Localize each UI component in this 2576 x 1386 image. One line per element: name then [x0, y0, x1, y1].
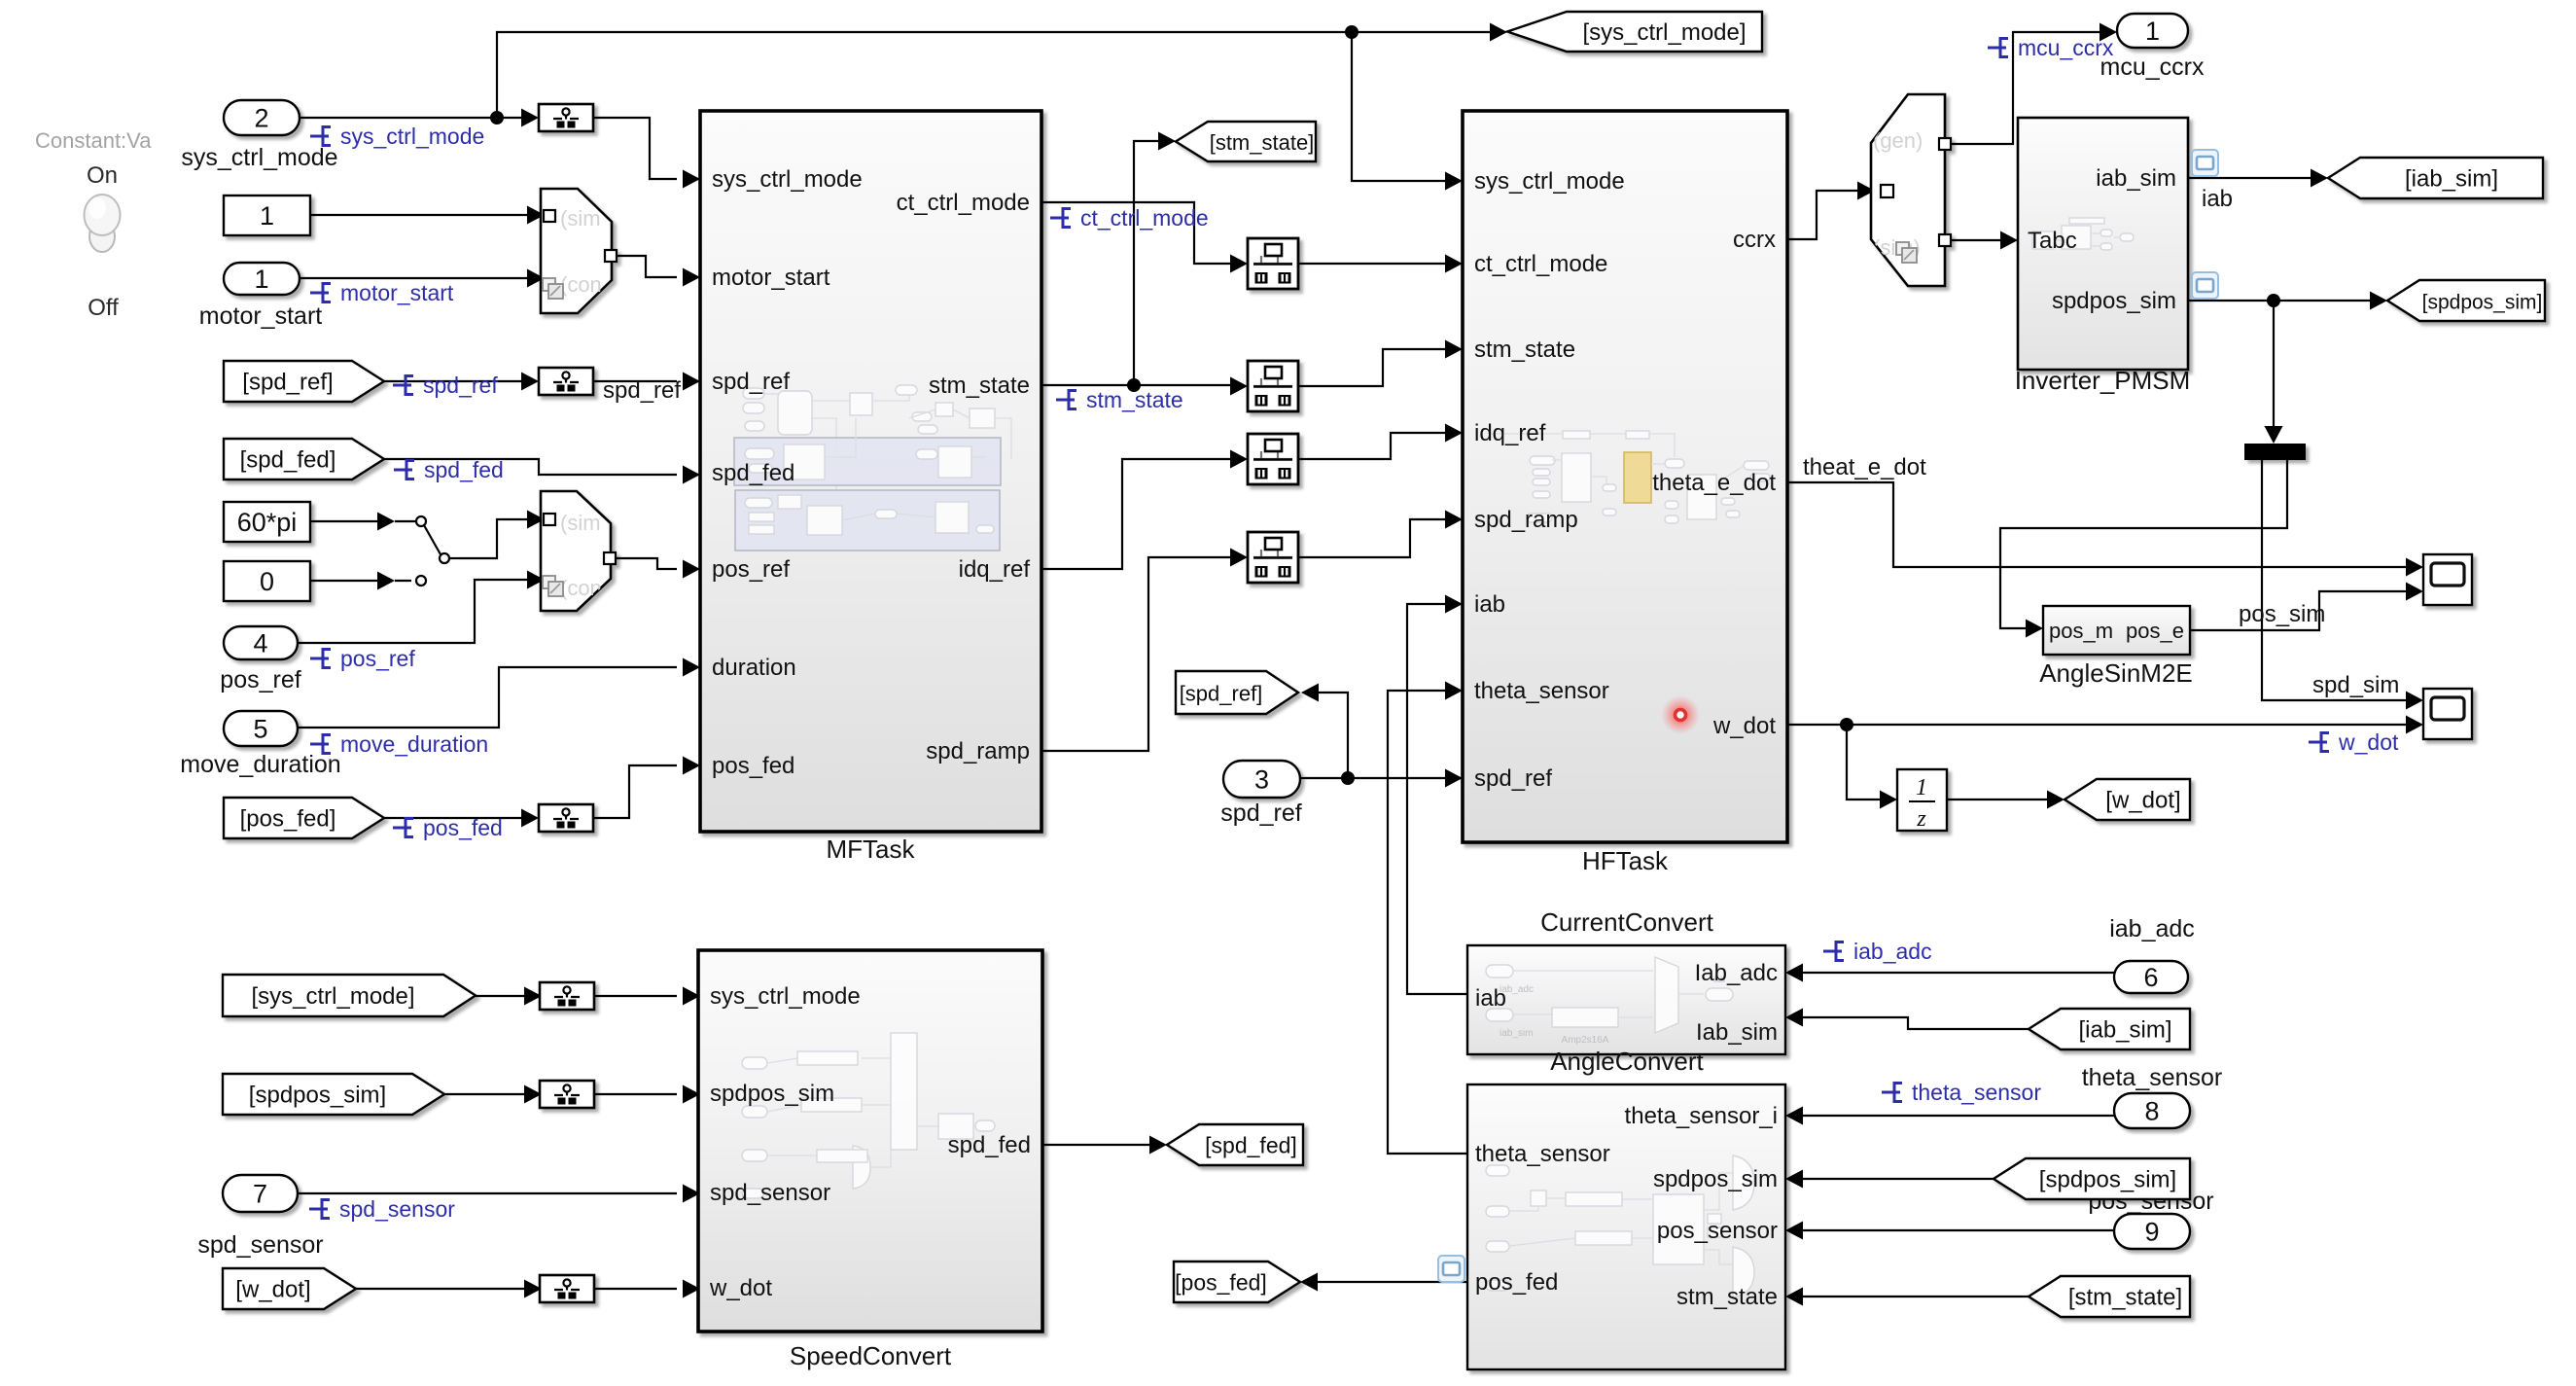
svg-text:theta_e_dot: theta_e_dot	[1652, 470, 1776, 496]
svg-text:[spdpos_sim]: [spdpos_sim]	[2039, 1167, 2176, 1193]
svg-text:sys_ctrl_mode: sys_ctrl_mode	[340, 124, 484, 149]
svg-text:motor_start: motor_start	[199, 302, 322, 330]
wire rate2 out to MFTask spd_ref	[593, 380, 677, 382]
outport 1 mcu_ccrx	[2117, 14, 2188, 48]
svg-text:0: 0	[260, 567, 274, 596]
subsystem HFTask	[1463, 111, 1787, 842]
variant source VS1	[541, 189, 617, 313]
svg-text:idq_ref: idq_ref	[959, 556, 1031, 583]
svg-text:(sim: (sim	[560, 511, 601, 535]
from tag sys_ctrl_mode bottom	[223, 975, 476, 1016]
svg-text:[spd_fed]: [spd_fed]	[1205, 1133, 1297, 1158]
svg-text:pos_sensor: pos_sensor	[1657, 1218, 1778, 1244]
inport 3 spd_ref	[1223, 761, 1300, 798]
svg-text:stm_state: stm_state	[1676, 1284, 1778, 1310]
svg-text:idq_ref: idq_ref	[1474, 420, 1546, 446]
svg-text:spd_fed: spd_fed	[948, 1132, 1031, 1158]
svg-text:ccrx: ccrx	[1733, 227, 1776, 253]
svg-text:Off: Off	[88, 295, 119, 321]
svg-text:spd_sensor: spd_sensor	[710, 1180, 830, 1206]
rate transition block T1-5	[540, 1081, 594, 1108]
wire T2-2 to HFTask stm_state	[1298, 349, 1453, 386]
rate transition block T1-6	[540, 1275, 594, 1302]
rate transition block T1-3	[539, 804, 593, 832]
wire port3 spd_ref to HFTask with branch to goto tag	[1300, 777, 1453, 779]
svg-text:w_dot: w_dot	[1712, 713, 1776, 739]
goto tag sys_ctrl_mode top	[1507, 12, 1762, 52]
svg-text:Constant:Va: Constant:Va	[35, 128, 152, 153]
svg-text:[stm_state]: [stm_state]	[1210, 130, 1315, 155]
wire rate3 out to MFTask pos_fed	[593, 765, 677, 818]
wire tag w_dot to rate block T1-6 and SpeedConvert	[356, 1288, 532, 1290]
subsystem MFTask	[700, 111, 1041, 832]
demux	[2244, 444, 2306, 460]
inport 1 motor_start	[224, 263, 300, 295]
rate transition block T2-1	[1248, 238, 1298, 289]
goto tag stm_state	[1176, 122, 1316, 161]
log badge spd_fed	[394, 459, 414, 480]
wire port7 spd_sensor to SpeedConvert	[298, 1192, 677, 1194]
svg-text:spd_ref: spd_ref	[423, 373, 498, 398]
goto tag spd_fed middle	[1167, 1124, 1303, 1165]
svg-text:sys_ctrl_mode: sys_ctrl_mode	[1474, 168, 1625, 195]
rate transition block T2-3	[1248, 434, 1298, 484]
svg-text:3: 3	[1254, 765, 1269, 795]
wire port9 pos_sensor to AngleConvert	[1795, 1229, 2114, 1231]
svg-text:[spd_ref]: [spd_ref]	[1180, 682, 1263, 706]
svg-text:spd_ref: spd_ref	[1220, 800, 1301, 827]
svg-text:AngleConvert: AngleConvert	[1550, 1047, 1704, 1076]
wire port move_duration to MFTask duration	[298, 667, 677, 728]
constant block 60*pi	[224, 502, 310, 542]
wire T2-3 to HFTask idq_ref	[1298, 433, 1453, 459]
wire demux left leg to scope2 spd_sim input	[2262, 459, 2414, 700]
log badge spd_ref	[393, 374, 413, 396]
scope spd_sim	[2423, 689, 2472, 739]
svg-text:theta_sensor_i: theta_sensor_i	[1625, 1103, 1778, 1129]
svg-text:sys_ctrl_mode: sys_ctrl_mode	[712, 166, 863, 193]
log badge move_duration	[310, 733, 331, 755]
AngleConvert ghost preview	[1486, 1155, 1754, 1297]
svg-text:6: 6	[2143, 963, 2158, 992]
svg-text:[iab_sim]: [iab_sim]	[2078, 1017, 2171, 1044]
inport 5 move_duration	[224, 711, 298, 746]
svg-text:spdpos_sim: spdpos_sim	[1653, 1166, 1778, 1192]
svg-text:pos_ref: pos_ref	[220, 666, 300, 693]
wire tag spdpos_sim to AngleConvert	[1795, 1178, 1994, 1180]
wire MFTask spd_ramp to rate block T2-4	[1041, 557, 1238, 751]
svg-text:theta_sensor: theta_sensor	[1912, 1080, 2041, 1105]
SpeedConvert ghost preview	[742, 1033, 995, 1198]
svg-text:4: 4	[253, 629, 267, 658]
log badge sys_ctrl_mode	[310, 125, 331, 147]
svg-text:[pos_fed]: [pos_fed]	[240, 806, 336, 833]
wire VS1 out to MFTask motor_start	[618, 256, 677, 277]
svg-text:mcu_ccrx: mcu_ccrx	[2018, 35, 2114, 60]
svg-text:spd_sim: spd_sim	[2312, 672, 2399, 698]
wire port8 theta_sensor to AngleConvert theta_sensor_i	[1795, 1115, 2114, 1117]
inport 4 pos_ref	[224, 626, 298, 659]
log badge ct_ctrl_mode	[1050, 207, 1071, 229]
svg-text:[sys_ctrl_mode]: [sys_ctrl_mode]	[251, 983, 414, 1010]
svg-text:SpeedConvert: SpeedConvert	[790, 1341, 952, 1370]
rate transition block T1-2	[539, 368, 593, 395]
svg-text:pos_fed: pos_fed	[1475, 1269, 1558, 1296]
svg-text:move_duration: move_duration	[340, 731, 488, 757]
goto tag pos_fed middle	[1174, 1262, 1300, 1302]
viewer badge on iab_sim output	[2192, 150, 2218, 176]
constant block 1	[224, 195, 310, 235]
toggle switch icon	[85, 195, 121, 252]
svg-text:theta_sensor: theta_sensor	[2082, 1064, 2223, 1091]
log badge iab_adc	[1823, 941, 1844, 962]
inport 9	[2114, 1214, 2190, 1249]
wire HFTask ccrx to variant sink	[1787, 191, 1861, 239]
svg-text:MFTask: MFTask	[827, 835, 916, 864]
svg-text:theat_e_dot: theat_e_dot	[1803, 454, 1926, 480]
inport 7 spd_sensor	[223, 1175, 298, 1212]
yellow chart block inside HFTask ghost	[1624, 452, 1651, 503]
wire VS2 out to MFTask pos_ref	[617, 558, 677, 569]
from tag spd_fed	[224, 439, 384, 480]
svg-text:HFTask: HFTask	[1582, 846, 1669, 875]
svg-text:spd_fed: spd_fed	[424, 457, 504, 482]
svg-text:spd_ref: spd_ref	[1474, 765, 1552, 792]
log badge w_dot right	[2309, 731, 2329, 753]
svg-text:mcu_ccrx: mcu_ccrx	[2100, 53, 2205, 81]
wire Inverter iab_sim to tag iab_sim	[2188, 177, 2318, 179]
svg-text:w_dot: w_dot	[709, 1275, 772, 1301]
wire SpeedConvert spd_fed to tag spd_fed	[1042, 1144, 1157, 1146]
wire constant 60*pi to manual switch	[310, 520, 381, 522]
wire from tag spd_ref to rate block 2	[384, 380, 529, 382]
from tag pos_fed	[224, 798, 384, 838]
svg-text:pos_ref: pos_ref	[340, 646, 415, 671]
svg-text:spdpos_sim: spdpos_sim	[710, 1081, 834, 1107]
log badge pos_ref	[310, 648, 331, 669]
block AngleSinM2E	[2043, 606, 2190, 655]
svg-text:(sim: (sim	[560, 206, 601, 231]
goto tag iab_sim bottom	[2029, 1009, 2190, 1049]
svg-text:1: 1	[254, 265, 268, 294]
svg-text:1: 1	[260, 201, 274, 231]
goto tag spdpos_sim bottom right	[1994, 1158, 2190, 1199]
svg-text:2: 2	[254, 104, 268, 133]
svg-text:spd_ref: spd_ref	[603, 377, 681, 404]
svg-text:iab_sim: iab_sim	[1500, 1028, 1533, 1039]
rate transition block T2-2	[1248, 361, 1298, 411]
wire top sys_ctrl_mode bus	[497, 32, 1498, 118]
wire from tag spd_fed to MFTask spd_fed	[384, 459, 677, 475]
svg-text:duration: duration	[712, 655, 796, 681]
svg-text:CurrentConvert: CurrentConvert	[1540, 907, 1714, 937]
MFTask ghost preview	[734, 385, 1011, 551]
svg-text:8: 8	[2144, 1097, 2159, 1126]
wire AngleConvert pos_fed to tag pos_fed	[1314, 1281, 1467, 1283]
goto tag spdpos_sim right	[2387, 280, 2545, 321]
svg-text:sys_ctrl_mode: sys_ctrl_mode	[181, 144, 337, 171]
wire MFTask idq_ref to rate block T2-3	[1041, 459, 1238, 569]
wire Inverter spdpos_sim to tag with branch down to demux	[2188, 300, 2378, 302]
svg-text:[spdpos_sim]: [spdpos_sim]	[249, 1083, 386, 1109]
wire MFTask stm_state out with branch to tag	[1041, 384, 1238, 386]
svg-text:(gen): (gen)	[1873, 128, 1923, 153]
goto tag spd_ref middle	[1176, 671, 1298, 714]
svg-text:sys_ctrl_mode: sys_ctrl_mode	[710, 983, 861, 1010]
svg-text:9: 9	[2144, 1218, 2159, 1247]
svg-text:[spd_fed]: [spd_fed]	[240, 447, 336, 474]
svg-text:Iab_adc: Iab_adc	[1695, 960, 1778, 986]
svg-text:stm_state: stm_state	[1474, 337, 1575, 363]
wire rate1 out to MFTask sys_ctrl_mode	[593, 118, 677, 179]
svg-text:60*pi: 60*pi	[237, 508, 298, 537]
wire T2-4 to HFTask spd_ramp	[1298, 519, 1453, 557]
unit delay 1/z	[1897, 769, 1947, 832]
svg-text:[spdpos_sim]: [spdpos_sim]	[2422, 292, 2543, 314]
svg-text:spd_sensor: spd_sensor	[197, 1231, 323, 1259]
wire variant sink gen out to port mcu_ccrx	[1951, 32, 2107, 144]
wire tag sys_ctrl_mode to rate block T1-4 and SpeedConvert	[476, 995, 532, 997]
from tag w_dot bottom	[223, 1268, 356, 1309]
svg-text:On: On	[87, 162, 118, 189]
wire HFTask theta_e_dot to scope1	[1787, 482, 2414, 567]
from tag spdpos_sim bottom	[223, 1074, 444, 1115]
subsystem CurrentConvert	[1467, 945, 1785, 1054]
svg-text:7: 7	[253, 1180, 267, 1209]
wire HFTask w_dot to scope2 with branch to unit delay	[1787, 724, 2414, 726]
wire tag iab_sim to CurrentConvert Iab_sim	[1795, 1017, 2029, 1029]
svg-text:Iab_sim: Iab_sim	[1696, 1019, 1778, 1046]
from tag spd_ref	[224, 361, 384, 402]
wire T2-1 to HFTask ct_ctrl_mode	[1298, 263, 1453, 265]
log badge pos_fed	[393, 817, 413, 838]
svg-text:Inverter_PMSM: Inverter_PMSM	[2015, 366, 2191, 395]
svg-text:(con: (con	[560, 272, 602, 297]
svg-text:pos_fed: pos_fed	[712, 753, 794, 779]
svg-text:stm_state: stm_state	[929, 373, 1030, 399]
subsystem Inverter_PMSM	[2018, 118, 2188, 370]
CurrentConvert ghost preview	[1486, 957, 1733, 1046]
wire manual switch to VS2 in1	[459, 519, 531, 558]
viewer badge on spdpos_sim output	[2192, 272, 2218, 299]
svg-text:iab: iab	[1475, 985, 1506, 1012]
svg-text:move_duration: move_duration	[180, 751, 340, 778]
wire AngleConvert theta_sensor up to HFTask theta_sensor	[1388, 691, 1467, 1154]
svg-text:motor_start: motor_start	[712, 265, 830, 291]
wire AngleSinM2E pos_e to scope1 pos_sim input	[2190, 591, 2414, 630]
rate transition block T1-4	[540, 982, 594, 1010]
svg-text:1: 1	[1916, 775, 1927, 800]
svg-text:iab: iab	[1474, 591, 1505, 618]
log badge spd_sensor	[309, 1198, 330, 1220]
svg-text:spd_fed: spd_fed	[712, 460, 794, 486]
svg-text:spdpos_sim: spdpos_sim	[2052, 288, 2176, 314]
log badge motor_start	[310, 282, 331, 303]
svg-text:theta_sensor: theta_sensor	[1474, 678, 1609, 704]
wire tag stm_state to AngleConvert	[1795, 1296, 2029, 1297]
goto tag iab_sim right	[2328, 158, 2543, 198]
wire CurrentConvert iab up to HFTask iab	[1407, 604, 1467, 994]
wire port pos_ref to VS2 in2	[298, 580, 531, 643]
viewer badge on pos_fed output	[1438, 1256, 1464, 1282]
svg-text:spd_ramp: spd_ramp	[1474, 507, 1578, 533]
subsystem SpeedConvert	[698, 950, 1042, 1332]
variant source VS2	[541, 491, 616, 611]
wire constant 0 to manual switch open contact	[310, 580, 381, 582]
svg-text:[spd_ref]: [spd_ref]	[242, 370, 333, 396]
svg-text:spd_ref: spd_ref	[712, 369, 790, 395]
svg-text:pos_fed: pos_fed	[423, 815, 503, 840]
svg-text:pos_sim: pos_sim	[2239, 601, 2325, 627]
rate transition block T1-1	[539, 104, 593, 131]
svg-text:pos_ref: pos_ref	[712, 556, 790, 583]
svg-text:ct_ctrl_mode: ct_ctrl_mode	[1080, 205, 1209, 231]
Inverter_PMSM ghost preview	[2032, 218, 2134, 250]
svg-text:[w_dot]: [w_dot]	[2105, 788, 2180, 814]
wire tag spdpos_sim to rate block T1-5 and SpeedConvert	[444, 1093, 532, 1095]
svg-text:spd_ramp: spd_ramp	[926, 738, 1030, 764]
wire from tag pos_fed to rate block 3	[384, 817, 529, 819]
svg-text:AngleSinM2E: AngleSinM2E	[2039, 658, 2193, 688]
red breakpoint indicator inside HFTask	[1661, 695, 1700, 734]
rate transition block T2-4	[1248, 532, 1298, 583]
log badge mcu_ccrx	[1988, 37, 2008, 58]
svg-text:stm_state: stm_state	[1086, 387, 1183, 412]
wire demux right leg to AngleSinM2E pos_m	[2000, 459, 2287, 628]
svg-text:5: 5	[253, 715, 267, 744]
log badge theta_sensor	[1882, 1082, 1902, 1103]
inport 2 sys_ctrl_mode	[224, 100, 300, 135]
manual switch	[416, 516, 426, 526]
wire constant 1 to variant source VS1 in1	[310, 214, 531, 216]
svg-text:[stm_state]: [stm_state]	[2068, 1285, 2182, 1311]
svg-text:theta_sensor: theta_sensor	[1475, 1141, 1610, 1167]
log badge stm_state	[1056, 389, 1076, 410]
subsystem AngleConvert	[1467, 1084, 1785, 1369]
svg-text:[iab_sim]: [iab_sim]	[2405, 166, 2498, 193]
svg-text:z: z	[1916, 806, 1926, 832]
svg-text:[sys_ctrl_mode]: [sys_ctrl_mode]	[1582, 19, 1746, 46]
goto tag w_dot right	[2064, 779, 2190, 820]
svg-text:[w_dot]: [w_dot]	[235, 1277, 310, 1303]
constant block 0	[224, 561, 310, 601]
svg-text:spd_sensor: spd_sensor	[339, 1196, 455, 1222]
goto tag stm_state bottom right	[2029, 1276, 2190, 1317]
svg-text:pos_e: pos_e	[2126, 619, 2184, 643]
svg-text:w_dot: w_dot	[2338, 729, 2399, 755]
svg-text:ct_ctrl_mode: ct_ctrl_mode	[897, 190, 1030, 216]
wire port2 to rate block and top bus	[300, 117, 529, 119]
svg-text:Amp2s16A: Amp2s16A	[1562, 1035, 1609, 1046]
svg-text:iab_sim: iab_sim	[2096, 165, 2176, 192]
variant sink	[1871, 94, 1951, 286]
svg-text:iab_adc: iab_adc	[1853, 939, 1932, 964]
wire port6 iab_adc to CurrentConvert	[1795, 972, 2114, 974]
wire variant sink sim out to Inverter_PMSM Tabc	[1951, 239, 2008, 241]
wire unit delay to tag w_dot	[1947, 799, 2055, 800]
svg-text:pos_m: pos_m	[2049, 619, 2113, 643]
wire top bus down to HFTask sys_ctrl_mode	[1352, 32, 1453, 181]
svg-text:iab_adc: iab_adc	[2109, 915, 2195, 942]
HFTask ghost preview	[1488, 431, 1770, 523]
svg-text:[pos_fed]: [pos_fed]	[1175, 1270, 1267, 1296]
svg-text:Tabc: Tabc	[2028, 228, 2077, 254]
svg-text:ct_ctrl_mode: ct_ctrl_mode	[1474, 251, 1607, 277]
wire MFTask ct_ctrl_mode to rate block T2-1	[1041, 202, 1238, 264]
scope pos_sim	[2423, 554, 2472, 605]
svg-text:1: 1	[2145, 17, 2160, 46]
wire port motor_start to VS1 in2	[300, 277, 531, 279]
svg-text:motor_start: motor_start	[340, 280, 454, 305]
svg-text:iab: iab	[2202, 186, 2233, 212]
